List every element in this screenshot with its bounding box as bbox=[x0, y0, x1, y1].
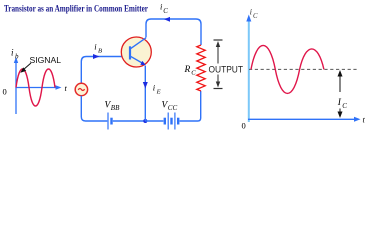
SIGNAL pointer arrow bbox=[20, 63, 31, 73]
output collector current waveform bbox=[251, 45, 324, 93]
svg-text:R: R bbox=[184, 65, 191, 75]
wire: V_CC to resistor branch bottom bbox=[180, 91, 201, 121]
right graph x-axis bbox=[248, 117, 361, 122]
battery V_CC bbox=[165, 113, 178, 130]
wire: junction to V_CC bbox=[145, 120, 163, 122]
svg-text:0: 0 bbox=[242, 121, 246, 131]
arrow i_C on top rail (pointing left) bbox=[164, 17, 170, 22]
label i_b bbox=[11, 48, 19, 61]
transistor Q1 bbox=[121, 37, 151, 67]
svg-text:i: i bbox=[153, 83, 156, 93]
I_C dimension arrow bbox=[338, 70, 343, 118]
label i_B bbox=[94, 42, 102, 55]
label i_C (right graph) bbox=[250, 7, 258, 21]
svg-text:t: t bbox=[65, 83, 68, 93]
wire: V_BB to junction bbox=[113, 120, 145, 122]
svg-text:E: E bbox=[156, 89, 161, 96]
left graph x-axis bbox=[16, 85, 62, 89]
left graph y-axis bbox=[14, 57, 18, 114]
svg-text:b: b bbox=[15, 53, 19, 61]
OUTPUT dimension marker bbox=[214, 40, 223, 89]
svg-text:i: i bbox=[94, 42, 97, 52]
wire: emitter down to junction bbox=[144, 66, 146, 121]
AC source V1 bbox=[75, 83, 87, 95]
svg-text:BB: BB bbox=[111, 104, 120, 112]
junction node bbox=[143, 119, 147, 123]
svg-text:B: B bbox=[98, 47, 102, 54]
resistor R_C bbox=[197, 45, 205, 91]
svg-text:CC: CC bbox=[168, 104, 178, 112]
label V_BB bbox=[105, 101, 121, 113]
svg-text:OUTPUT: OUTPUT bbox=[209, 65, 244, 75]
wire: AC source bottom to bottom rail bbox=[81, 96, 107, 121]
label i_E bbox=[153, 83, 161, 96]
svg-text:t: t bbox=[363, 115, 366, 125]
label i_C (top rail) bbox=[160, 2, 168, 15]
label I_C bbox=[337, 98, 348, 110]
svg-text:C: C bbox=[191, 70, 196, 77]
right graph y-axis bbox=[246, 15, 251, 123]
arrow i_E on emitter wire (pointing down) bbox=[143, 82, 148, 89]
arrow i_B on base wire bbox=[93, 54, 100, 59]
battery V_BB bbox=[108, 113, 112, 130]
dashed bias level line bbox=[249, 68, 357, 70]
svg-text:i: i bbox=[11, 48, 14, 58]
svg-text:C: C bbox=[163, 8, 168, 15]
input signal sine wave bbox=[16, 69, 55, 106]
svg-text:Transistor as an Amplifier in: Transistor as an Amplifier in Common Emi… bbox=[4, 4, 149, 15]
wire: AC source top vertical to base bbox=[81, 57, 130, 84]
svg-text:I: I bbox=[337, 98, 342, 108]
svg-text:SIGNAL: SIGNAL bbox=[30, 55, 62, 65]
label V_CC bbox=[162, 101, 178, 113]
label R_C bbox=[184, 65, 197, 77]
svg-text:0: 0 bbox=[3, 87, 7, 97]
svg-text:C: C bbox=[253, 13, 258, 20]
wire: collector up and top rail to resistor bbox=[146, 19, 201, 45]
svg-text:C: C bbox=[342, 102, 347, 110]
